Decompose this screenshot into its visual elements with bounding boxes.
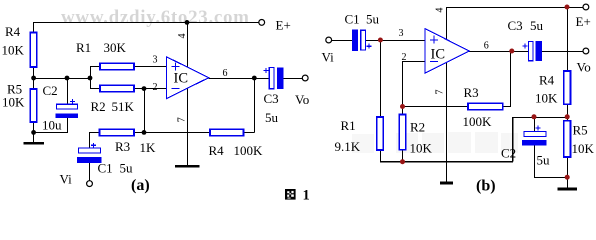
wire: left node horizontal	[34, 77, 91, 79]
watermark middle gray	[352, 132, 518, 153]
svg-text:5u: 5u	[265, 110, 279, 125]
wire: pin7 drop to ground	[186, 89, 188, 166]
svg-text:7: 7	[435, 90, 446, 95]
wire: R3 right lead riser to output	[503, 51, 511, 106]
svg-text:1: 1	[303, 188, 310, 204]
node B7	[532, 114, 537, 119]
svg-text:10K: 10K	[2, 95, 25, 110]
resistor R1 (b) 9.1K vertical	[377, 117, 384, 150]
svg-text:R1: R1	[341, 118, 356, 133]
svg-text:100K: 100K	[463, 114, 493, 129]
svg-text:R2: R2	[91, 99, 106, 114]
wire: pin4 riser	[445, 7, 447, 40]
node A1	[185, 20, 190, 25]
wire: feedback row to R4 100K	[144, 131, 210, 133]
node A6	[142, 130, 147, 135]
wire: R5 top lead	[566, 117, 568, 121]
resistor R1 (a) 30K horizontal	[100, 63, 134, 70]
svg-text:E+: E+	[576, 14, 591, 29]
svg-text:100K: 100K	[234, 143, 264, 158]
wire: pin7 to ground	[445, 63, 447, 183]
wire: C2 row	[513, 116, 568, 118]
svg-text:3: 3	[153, 55, 158, 66]
svg-text:R5: R5	[573, 123, 588, 138]
svg-text:(a): (a)	[131, 177, 150, 194]
capacitor C1 (a) 5u electrolytic	[77, 143, 102, 163]
svg-text:1K: 1K	[140, 140, 157, 155]
op-amp U2 (b)	[425, 29, 469, 74]
svg-text:4: 4	[435, 8, 446, 13]
wire: output riser	[253, 78, 255, 132]
wire: C2 bottom to ground node	[34, 118, 68, 133]
node B8	[565, 175, 570, 180]
wire: E+ top rail (a)	[34, 22, 259, 32]
wire: R3 right lead	[134, 131, 144, 133]
svg-text:5u: 5u	[366, 12, 380, 27]
op-amp U1 (a)	[167, 57, 209, 99]
svg-text:R1: R1	[76, 40, 91, 55]
wire: bottom rail	[380, 161, 513, 163]
wire: R1 to pin3	[134, 66, 167, 68]
terminal E+ (a)	[259, 20, 265, 26]
wire: R2 to pin2	[134, 88, 167, 90]
svg-text:C2: C2	[43, 83, 58, 98]
wire: C2 bottom to R5 bottom	[534, 145, 568, 177]
svg-text:10K: 10K	[410, 141, 433, 156]
svg-text:C1: C1	[345, 12, 360, 27]
watermark top	[61, 7, 249, 28]
capacitor C3 (b) 5u electrolytic	[522, 41, 542, 61]
node A8	[31, 130, 36, 135]
labels circuit (a)	[2, 18, 310, 187]
svg-text:C3: C3	[508, 18, 523, 33]
resistor R4f (a) 100K horizontal	[210, 129, 244, 136]
wire: R1 bottom lead	[379, 150, 381, 162]
node A3	[65, 76, 70, 81]
resistor R4 (a) 10K vertical	[30, 33, 37, 68]
ground bar (b) right	[558, 188, 577, 191]
wire: R2 bottom lead	[401, 150, 403, 162]
terminal Vo (a)	[302, 75, 308, 81]
wire: pin4 drop (a)	[186, 22, 188, 67]
svg-text:10u: 10u	[42, 118, 62, 133]
wire: R5 bottom lead + ground stem	[33, 122, 35, 144]
svg-text:51K: 51K	[112, 99, 135, 114]
ground bar (b) op-amp	[440, 182, 453, 185]
terminal Vi (b)	[326, 37, 332, 43]
svg-text:3: 3	[399, 28, 404, 39]
svg-text:www.dzdiy.6to23.com: www.dzdiy.6to23.com	[61, 7, 249, 28]
wire: R5 top lead	[33, 78, 35, 89]
wire: C2 top lead	[533, 117, 535, 131]
svg-text:10K: 10K	[535, 91, 558, 106]
resistor R5 (b) 10K vertical	[564, 121, 571, 157]
svg-text:2: 2	[402, 52, 407, 63]
capacitor C2 (b) 5u electrolytic	[522, 126, 547, 146]
svg-text:2: 2	[153, 82, 158, 93]
node B3	[565, 5, 570, 10]
svg-text:10K: 10K	[2, 43, 25, 58]
svg-text:9.1K: 9.1K	[335, 139, 361, 154]
node B2	[509, 49, 514, 54]
svg-text:R3: R3	[115, 139, 130, 154]
resistor R2 (b) 10K vertical	[399, 115, 406, 150]
svg-text:5u: 5u	[537, 153, 551, 168]
svg-text:10K: 10K	[572, 141, 595, 156]
svg-text:C3: C3	[264, 91, 279, 106]
resistor R3 (a) 1K horizontal	[100, 129, 135, 136]
svg-text:C1: C1	[98, 161, 113, 176]
node A5	[142, 86, 147, 91]
wire: C3 to Vo	[284, 77, 303, 79]
svg-text:R4: R4	[5, 24, 21, 39]
capacitor C2 (a) 10u electrolytic	[56, 99, 79, 118]
svg-text:30K: 30K	[104, 40, 127, 55]
svg-text:R4: R4	[209, 143, 225, 158]
wire: C1 to pin3	[366, 39, 425, 41]
pin labels (b)	[399, 8, 489, 95]
terminal Vo (b)	[583, 48, 589, 54]
resistor R2 (a) 51K horizontal	[100, 85, 134, 92]
capacitor C3 (a) 5u electrolytic	[264, 67, 284, 89]
wire: R1 branch up	[90, 67, 100, 79]
node B4	[400, 104, 405, 109]
svg-text:7: 7	[177, 117, 188, 122]
resistor R3 (b) 100K horizontal	[468, 103, 503, 109]
wire: R4 bottom lead	[33, 67, 35, 79]
svg-text:Vi: Vi	[60, 172, 73, 187]
capacitor C1 (b) 5u electrolytic	[353, 30, 372, 51]
node B1	[378, 38, 383, 43]
node A4	[88, 76, 93, 81]
terminal E+ (b)	[583, 4, 589, 10]
wire: C3 to Vo	[542, 50, 583, 52]
svg-text:6: 6	[484, 41, 489, 52]
svg-text:IC: IC	[174, 71, 189, 87]
wire: pin6 output to C3	[209, 77, 270, 79]
svg-text:Vo: Vo	[295, 92, 309, 107]
node A7	[252, 76, 257, 81]
svg-text:5u: 5u	[530, 18, 544, 33]
svg-text:R4: R4	[539, 73, 555, 88]
svg-text:IC: IC	[431, 47, 446, 63]
resistor R5 (a) 10K vertical	[30, 89, 37, 122]
wire: R5 bottom lead + ground stem	[566, 157, 568, 188]
wire: R2 node to R3	[402, 105, 468, 107]
wire: rail riser right	[512, 117, 514, 162]
svg-text:4: 4	[177, 34, 188, 39]
wire: E+ riser down to R4	[566, 7, 568, 71]
wire: R3 left lead down to C1	[89, 132, 99, 148]
wire: pin2 to R2 node	[402, 62, 425, 107]
wire: R2 top lead	[401, 107, 403, 115]
svg-text:6: 6	[223, 68, 228, 79]
wire: Vi to C1	[332, 39, 353, 41]
svg-text:C2: C2	[501, 146, 516, 161]
labels circuit (b)	[322, 12, 595, 168]
node B6	[565, 114, 570, 119]
svg-text:Vo: Vo	[577, 60, 591, 75]
resistor R4 (b) 10K vertical	[564, 71, 571, 104]
wire: R2 branch down	[90, 78, 100, 88]
node B5	[400, 159, 405, 164]
wire: C1 bottom lead to Vi	[88, 163, 90, 181]
terminal Vi (a)	[87, 181, 93, 187]
svg-text:Vi: Vi	[322, 50, 335, 65]
svg-text:(b): (b)	[476, 178, 496, 195]
svg-text:E+: E+	[276, 18, 291, 33]
wire: pin2 node to feedback row	[143, 89, 145, 133]
node A2	[31, 76, 36, 81]
wire: E+ top rail (b)	[446, 6, 583, 8]
svg-text:R2: R2	[410, 120, 425, 135]
wire: pin6 output	[469, 50, 528, 52]
ground bar (a) op-amp	[175, 165, 200, 168]
wire: R4 100K right lead	[244, 131, 255, 133]
wire: C2 top lead	[66, 78, 68, 104]
pin labels (a)	[153, 34, 228, 123]
caption 图 1	[285, 188, 310, 204]
wire: node to R1	[379, 40, 381, 117]
wire: R4 bottom lead	[566, 104, 568, 117]
ground bar (a) left	[24, 142, 44, 145]
svg-text:5u: 5u	[120, 161, 134, 176]
svg-text:R3: R3	[464, 85, 479, 100]
